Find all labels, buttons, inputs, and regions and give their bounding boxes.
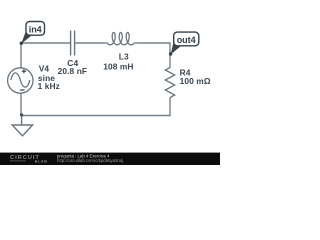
capacitor C4 (71, 31, 75, 56)
svg-text:■LAB: ■LAB (35, 159, 48, 164)
svg-text:1 kHz: 1 kHz (38, 81, 60, 91)
svg-text:http://circuitlab.com/c/5pd65y: http://circuitlab.com/c/5pd65ya3mtj (57, 158, 123, 163)
wire left vertical (in4 node to V4 top) (20, 43, 22, 68)
svg-text:100 mΩ: 100 mΩ (180, 76, 211, 86)
voltage source V4 circle (8, 68, 33, 93)
node dot in4 (20, 42, 23, 45)
wire out4 corner down to R4 (169, 42, 171, 67)
V4 minus sign (20, 89, 25, 91)
wire top-left horizontal (in4 node to C4) (21, 42, 70, 44)
flag out4 pointer (171, 42, 182, 54)
footer bar (0, 153, 220, 165)
junction dot ground node (20, 113, 23, 116)
inductor L3 (105, 33, 138, 45)
flag in4 pointer (21, 32, 32, 44)
wire C4 to L3 (75, 42, 104, 44)
svg-text:L3: L3 (119, 51, 129, 61)
wire R4 bottom lead (169, 98, 171, 117)
svg-text:in4: in4 (29, 24, 42, 34)
wire bottom horizontal (21, 115, 170, 117)
V4 sine wave (11, 73, 30, 87)
wire L3 to out4 corner (138, 42, 171, 44)
svg-text:out4: out4 (177, 35, 196, 45)
resistor R4 (165, 68, 174, 98)
svg-text:20.8 nF: 20.8 nF (58, 66, 88, 76)
flag in4 box (26, 22, 45, 36)
footer logo dashes (10, 159, 26, 162)
flag out4 box (174, 32, 199, 46)
ground symbol (12, 116, 32, 136)
svg-text:108 mH: 108 mH (103, 61, 133, 71)
node dot out4 (169, 52, 172, 55)
V4 plus sign (20, 69, 26, 90)
wire V4 bottom to ground junction (20, 93, 22, 115)
